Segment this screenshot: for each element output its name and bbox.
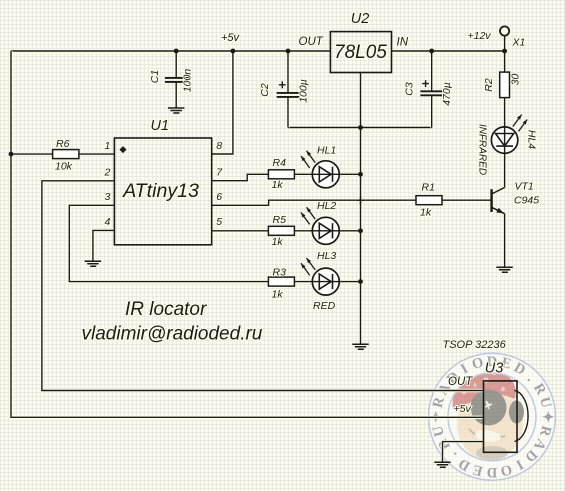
svg-text:470µ: 470µ — [441, 82, 453, 106]
resistor R1 — [416, 196, 442, 205]
svg-text:100n: 100n — [182, 69, 194, 93]
svg-text:100µ: 100µ — [298, 79, 310, 103]
LED HL2 — [301, 207, 339, 244]
junction pin8 riser — [231, 49, 236, 54]
wire R5 to HL2 to rail — [294, 229, 360, 232]
wire +12v rail — [392, 49, 505, 52]
resistor R6 — [53, 150, 79, 159]
resistor R3 — [268, 277, 294, 286]
junction X1 — [502, 49, 507, 54]
watermark stamp radioded.ru — [429, 353, 556, 480]
svg-text:1k: 1k — [272, 289, 284, 301]
plus sign C3 — [422, 80, 429, 87]
svg-text:5: 5 — [216, 216, 222, 228]
svg-text:1k: 1k — [272, 236, 284, 248]
svg-text:C2: C2 — [259, 83, 271, 97]
svg-text:OUT: OUT — [299, 36, 324, 48]
wire R3 to HL3 to rail — [294, 280, 360, 283]
terminal X1 — [500, 26, 509, 35]
svg-text:3: 3 — [104, 191, 110, 203]
svg-text:R2: R2 — [483, 78, 495, 92]
junction U2 gnd rail — [358, 125, 363, 130]
wire pin8 riser — [212, 51, 233, 154]
LED HL1 — [301, 151, 339, 188]
svg-text:U3: U3 — [485, 360, 504, 376]
wire crossing R1 over LED rail — [357, 197, 364, 205]
resistor R2 — [500, 72, 510, 98]
resistor R4 — [268, 170, 294, 179]
svg-text:1: 1 — [104, 140, 110, 152]
svg-text:4: 4 — [104, 216, 110, 228]
wire pin3 to R3 — [69, 205, 268, 281]
ground C1 — [168, 108, 185, 113]
svg-text:D: D — [487, 464, 497, 480]
svg-text:HL2: HL2 — [317, 200, 336, 212]
wire pin6 to R1 — [212, 200, 416, 205]
svg-text:RED: RED — [313, 300, 336, 312]
LED HL3 — [301, 258, 339, 295]
svg-text:10k: 10k — [55, 161, 73, 173]
svg-text:ATtiny13: ATtiny13 — [122, 180, 199, 202]
svg-text:C1: C1 — [149, 70, 161, 83]
pin1 marker U1 — [119, 146, 126, 153]
capacitor C1 — [165, 78, 189, 82]
wire pin4 to ground — [93, 230, 115, 261]
junction C1 — [174, 49, 179, 54]
svg-text:R4: R4 — [273, 157, 287, 169]
svg-text:2: 2 — [103, 167, 110, 179]
wire X1 to R2 to HL4 — [503, 36, 506, 127]
wire C1 stubs — [174, 51, 177, 108]
svg-text:HL3: HL3 — [317, 250, 336, 262]
svg-text:R5: R5 — [273, 214, 287, 226]
wire R6 row — [11, 152, 114, 155]
svg-text:C3: C3 — [404, 82, 416, 96]
svg-text:30: 30 — [510, 74, 522, 86]
junction HL2 rail — [358, 228, 363, 233]
svg-text:U2: U2 — [351, 11, 370, 27]
wire LED cathode rail — [359, 128, 362, 345]
ground U3 — [434, 462, 450, 467]
svg-text:IN: IN — [397, 37, 409, 49]
svg-text:R1: R1 — [422, 182, 435, 194]
wire pin7 to R4 — [212, 174, 269, 180]
svg-text:OUT: OUT — [448, 376, 473, 388]
svg-text:6: 6 — [216, 191, 222, 203]
svg-text:TSOP 32236: TSOP 32236 — [443, 339, 507, 351]
ground emitter — [496, 267, 512, 272]
IC U2 78L05 box — [330, 32, 391, 73]
svg-text:1k: 1k — [272, 179, 284, 191]
wire pin5 to R5 — [212, 229, 269, 232]
svg-text:HL1: HL1 — [317, 145, 336, 157]
LED HL4 infrared — [491, 115, 527, 154]
wire U2 gnd pin — [359, 73, 362, 128]
wire R4 to HL1 to rail — [294, 173, 360, 176]
wire emitter to ground — [503, 214, 506, 268]
resistor R5 — [268, 226, 294, 235]
svg-text:78L05: 78L05 — [334, 42, 387, 63]
svg-text:X1: X1 — [512, 37, 526, 49]
wire U3 gnd — [443, 442, 484, 463]
svg-text:vladimir@radioded.ru: vladimir@radioded.ru — [82, 324, 263, 345]
svg-text:8: 8 — [216, 140, 222, 152]
svg-text:+12v: +12v — [468, 30, 492, 42]
wire C3 stubs — [430, 51, 433, 128]
IC U3 TSOP box — [484, 381, 518, 452]
junction HL3 rail — [358, 279, 363, 284]
svg-text:R3: R3 — [273, 266, 287, 278]
U3 dome arc — [515, 390, 529, 441]
junction C3 — [429, 49, 434, 54]
junction HL1 rail — [358, 172, 363, 177]
wire left rail +5v to U3 — [11, 51, 484, 417]
svg-text:INFRARED: INFRARED — [477, 124, 488, 175]
svg-text:VT1: VT1 — [515, 181, 534, 193]
wire C2 bottom rail to C3 — [288, 126, 432, 129]
svg-text:+5v: +5v — [221, 32, 241, 44]
capacitor C2 polarized — [277, 93, 300, 97]
IC U1 ATtiny13 box — [114, 138, 211, 245]
wire R1 to base — [442, 198, 491, 201]
svg-text:R6: R6 — [56, 138, 70, 150]
junction C2 — [286, 49, 291, 54]
wire C2 stubs — [286, 51, 289, 128]
transistor VT1 — [492, 188, 505, 214]
svg-text:+5v: +5v — [454, 403, 472, 415]
wire HL4 to collector — [503, 154, 506, 188]
svg-text:1k: 1k — [420, 206, 432, 218]
junction R6 left rail — [9, 152, 14, 157]
svg-text:U1: U1 — [151, 118, 170, 134]
ground LED rail — [352, 344, 368, 349]
capacitor C3 polarized — [420, 91, 443, 95]
wire +5v top rail — [11, 49, 330, 52]
wire pin2 to U3 OUT — [42, 181, 484, 391]
svg-text:IR locator: IR locator — [125, 299, 207, 320]
plus sign C2 — [279, 81, 286, 88]
ground U1 pin4 — [85, 261, 101, 266]
svg-text:✦: ✦ — [539, 411, 555, 423]
svg-text:HL4: HL4 — [526, 130, 538, 149]
svg-text:C945: C945 — [514, 195, 539, 207]
